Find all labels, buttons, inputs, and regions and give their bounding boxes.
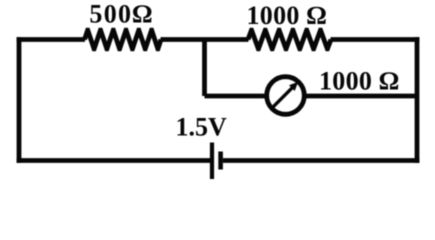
wire top right segment xyxy=(331,37,420,42)
wire junction drop from top wire to meter branch xyxy=(202,40,207,97)
wire top middle segment xyxy=(161,37,249,42)
battery B1 long plate (positive) xyxy=(210,143,214,180)
wire top left segment xyxy=(17,37,85,42)
wire right vertical xyxy=(415,37,420,163)
resistor R2 zigzag 1000 ohm xyxy=(248,30,331,49)
wire left vertical xyxy=(17,37,22,163)
galvanometer needle arrow xyxy=(272,82,298,108)
svg-text:1000 Ω: 1000 Ω xyxy=(247,1,327,30)
svg-text:1.5V: 1.5V xyxy=(176,113,228,142)
galvanometer G circle xyxy=(267,77,305,115)
wire meter branch right segment xyxy=(305,94,418,99)
svg-text:500Ω: 500Ω xyxy=(89,0,153,28)
svg-text:1000 Ω: 1000 Ω xyxy=(319,67,399,96)
battery B1 short plate (negative) xyxy=(218,152,223,170)
resistor R1 zigzag 500 ohm xyxy=(85,30,162,49)
wire bottom left segment xyxy=(17,158,211,163)
wire bottom right segment xyxy=(223,158,420,163)
wire meter branch left segment xyxy=(205,94,268,99)
